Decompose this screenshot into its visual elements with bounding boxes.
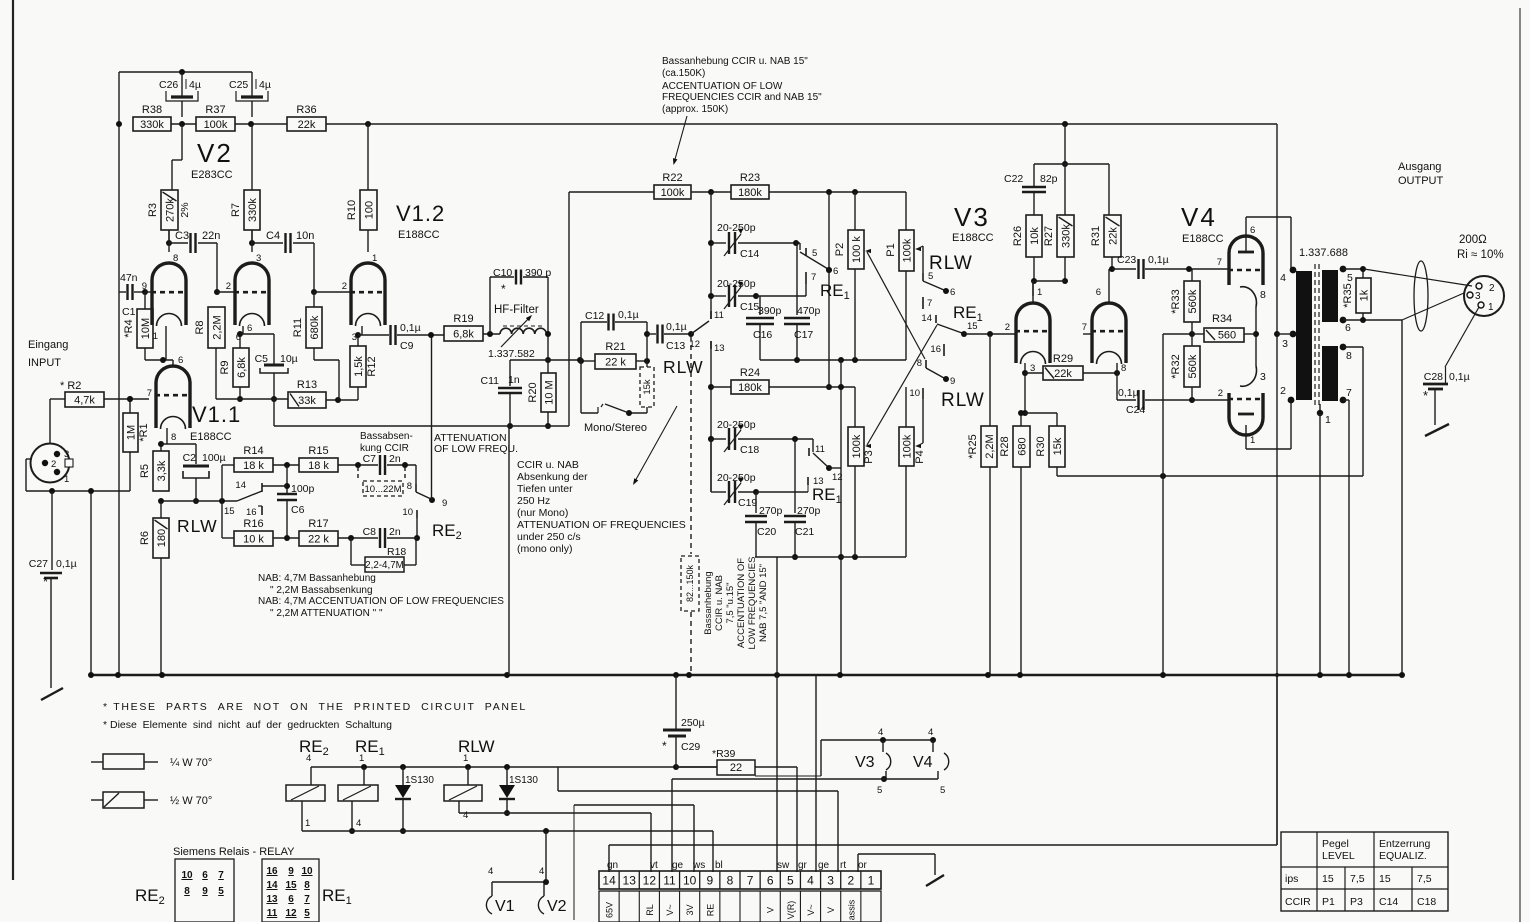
svg-text:CCIR u. NAB: CCIR u. NAB <box>517 459 579 471</box>
svg-text:*: * <box>1423 388 1428 403</box>
svg-text:0,1µ: 0,1µ <box>618 309 639 321</box>
svg-text:*R4: *R4 <box>123 319 135 337</box>
capacitor C29 <box>662 717 705 767</box>
svg-text:6: 6 <box>1250 225 1255 236</box>
svg-text:1.337.582: 1.337.582 <box>488 348 535 360</box>
svg-text:47n: 47n <box>120 272 138 284</box>
svg-text:4,7k: 4,7k <box>74 394 95 406</box>
svg-text:E283CC: E283CC <box>191 169 233 181</box>
capacitor C28 <box>1423 307 1479 425</box>
svg-text:10 k: 10 k <box>243 533 264 545</box>
resistor R22 <box>654 172 714 199</box>
svg-text:4: 4 <box>356 818 361 829</box>
svg-text:R31: R31 <box>1090 226 1102 246</box>
svg-text:V~: V~ <box>806 904 816 915</box>
svg-text:ge: ge <box>818 860 830 871</box>
svg-text:V1: V1 <box>495 898 515 915</box>
svg-text:2: 2 <box>1489 283 1495 294</box>
svg-text:0,1µ: 0,1µ <box>400 322 421 334</box>
svg-text:C18: C18 <box>1417 896 1436 908</box>
tube V1.1 <box>155 366 191 443</box>
svg-text:Bassanhebung: Bassanhebung <box>703 571 714 634</box>
svg-text:C1: C1 <box>122 306 136 318</box>
transformer core <box>1315 264 1319 406</box>
svg-text:*R32: *R32 <box>1170 354 1182 378</box>
svg-text:under 250 c/s: under 250 c/s <box>517 531 581 543</box>
resistor R1 <box>123 396 150 491</box>
resistor R11 <box>292 292 339 400</box>
label RLW mono <box>663 357 704 377</box>
label 1.337.688 <box>1299 247 1348 259</box>
svg-text:R13: R13 <box>297 379 317 391</box>
svg-text:9: 9 <box>202 886 208 897</box>
wire C22 branch <box>1034 124 1109 215</box>
svg-text:C4: C4 <box>266 230 280 242</box>
svg-text:100k: 100k <box>851 434 863 458</box>
wire plate rail V3a <box>1033 281 1065 296</box>
wire cathode x1256 <box>1253 307 1259 366</box>
heater V3 <box>855 727 891 796</box>
svg-text:*: * <box>662 739 667 753</box>
switch RLW 11-12-13 eq <box>689 310 724 354</box>
label NAB block <box>258 573 504 619</box>
label Ri <box>1457 249 1504 261</box>
svg-text:R18: R18 <box>387 546 406 558</box>
svg-text:1: 1 <box>1250 435 1255 446</box>
resistor R30 <box>1035 413 1065 476</box>
svg-text:C21: C21 <box>795 526 814 538</box>
wire secondary 7 ground <box>1343 400 1349 675</box>
switch contact 7 <box>923 297 932 309</box>
svg-text:2: 2 <box>342 281 347 292</box>
svg-text:1n: 1n <box>508 374 520 386</box>
resistor R20 <box>527 360 556 429</box>
wiper P3 to contact14 <box>865 325 937 448</box>
svg-text:gn: gn <box>607 860 618 871</box>
wire eq ladder x711 lower <box>708 341 714 492</box>
svg-text:6: 6 <box>247 323 252 334</box>
resistor R3 <box>147 190 191 230</box>
svg-text:7: 7 <box>218 870 224 881</box>
svg-text:V1.2: V1.2 <box>396 201 445 226</box>
diode 1S130 b <box>499 767 538 816</box>
svg-text:INPUT: INPUT <box>28 357 61 369</box>
svg-text:250 Hz: 250 Hz <box>517 495 550 507</box>
cable shield oval <box>1414 261 1428 331</box>
capacitor C9 <box>358 322 444 352</box>
svg-text:10 M: 10 M <box>543 380 555 404</box>
svg-text:C7: C7 <box>363 453 377 465</box>
svg-text:0,1µ: 0,1µ <box>666 321 687 333</box>
svg-text:* R2: * R2 <box>60 380 81 392</box>
label V1.1 <box>192 402 241 427</box>
legend quarter watt <box>91 754 212 769</box>
svg-text:10: 10 <box>909 388 920 399</box>
svg-text:270k: 270k <box>164 198 176 222</box>
label Eingang <box>28 339 68 351</box>
svg-text:2: 2 <box>1280 385 1286 397</box>
wire V2a cathode <box>165 326 167 360</box>
wire V3a cathode <box>1022 363 1035 416</box>
svg-text:33k: 33k <box>298 395 316 407</box>
wire cathode rail y501 <box>158 498 237 504</box>
svg-text:V1.1: V1.1 <box>192 402 241 427</box>
svg-text:* Diese Elemente sind nicht: * Diese Elemente sind nicht auf der gedr… <box>103 719 392 731</box>
svg-text:P3: P3 <box>863 450 875 463</box>
wire output return <box>1343 293 1464 675</box>
svg-text:Absenkung der: Absenkung der <box>517 471 588 483</box>
svg-text:C29: C29 <box>681 741 700 753</box>
resistor R25 <box>967 334 997 675</box>
transformer secondary upper <box>1322 266 1353 334</box>
svg-text:C28: C28 <box>1424 371 1443 383</box>
svg-text:2,2M: 2,2M <box>211 315 223 339</box>
wire R7 top <box>251 124 252 190</box>
svg-text:C23: C23 <box>1117 254 1136 266</box>
wire V3b cathode <box>1116 363 1118 400</box>
resistor R15 <box>273 445 338 472</box>
svg-text:V: V <box>766 907 776 913</box>
resistor R28 <box>999 410 1030 675</box>
wire NFB divider tap <box>1163 331 1195 675</box>
label RE2 coil <box>299 737 329 758</box>
svg-text:22 k: 22 k <box>605 356 626 368</box>
svg-text:Bassanhebung CCIR u. NAB 15": Bassanhebung CCIR u. NAB 15" <box>662 56 808 67</box>
svg-text:5: 5 <box>928 271 933 282</box>
label V4 <box>1181 202 1217 232</box>
svg-text:22k: 22k <box>1054 368 1072 380</box>
svg-text:1: 1 <box>359 753 364 764</box>
wire C29 to bus <box>675 675 677 729</box>
resistor R29 <box>1025 353 1120 380</box>
svg-text:bl: bl <box>715 860 723 871</box>
svg-text:6: 6 <box>202 870 208 881</box>
svg-text:7: 7 <box>927 298 932 309</box>
label Bassanhebung rotated block <box>703 557 769 650</box>
svg-text:C9: C9 <box>400 340 414 352</box>
svg-text:3: 3 <box>1475 291 1481 302</box>
capacitor C15 trimmer <box>711 278 806 313</box>
resistor R9 <box>219 331 249 402</box>
capacitor C22 <box>1004 164 1058 215</box>
svg-text:8: 8 <box>1121 363 1126 374</box>
label pin7 V3b <box>1082 322 1092 334</box>
switch Mono/Stereo <box>581 361 629 413</box>
svg-text:3V: 3V <box>685 904 695 915</box>
svg-text:10µ: 10µ <box>280 353 298 365</box>
label siemens relay <box>173 846 295 858</box>
svg-text:100 k: 100 k <box>851 236 863 263</box>
svg-text:680: 680 <box>1016 437 1028 455</box>
label RE1 table <box>322 886 352 907</box>
wire input ground rail <box>26 488 130 675</box>
svg-text:*: * <box>501 282 506 296</box>
label RE1 p <box>953 303 983 324</box>
svg-text:4: 4 <box>928 727 933 738</box>
switch RLW 8-9 <box>917 358 956 387</box>
svg-text:R19: R19 <box>453 313 473 325</box>
svg-text:R15: R15 <box>308 445 328 457</box>
wire eq ladder x711 upper <box>708 192 714 319</box>
switch RLW 5-6 <box>923 271 955 298</box>
svg-text:E188CC: E188CC <box>952 232 994 244</box>
capacitor C16 <box>746 296 782 360</box>
svg-text:10k: 10k <box>1029 227 1041 245</box>
wire R37-R36 <box>235 121 287 127</box>
wire heater V3V4 feed <box>755 737 936 776</box>
label E188CC v12 <box>398 229 440 241</box>
svg-text:7,5: 7,5 <box>1417 873 1432 885</box>
svg-text:10M: 10M <box>140 318 152 339</box>
svg-text:(ca.150K): (ca.150K) <box>662 68 705 79</box>
svg-text:3: 3 <box>1260 371 1266 383</box>
svg-text:6: 6 <box>1345 322 1351 334</box>
svg-text:4µ: 4µ <box>189 79 201 91</box>
resistor R39 <box>676 748 797 775</box>
capacitor C12 loop <box>581 309 647 361</box>
wire V4a anode <box>1246 217 1291 270</box>
table RE1 pins <box>262 859 319 922</box>
svg-text:ge: ge <box>672 860 684 871</box>
svg-text:NAB: 4,7M Bassanhebung: NAB: 4,7M Bassanhebung <box>258 573 376 584</box>
svg-text:(mono only): (mono only) <box>517 543 572 555</box>
tube V4b dome <box>1228 393 1264 435</box>
svg-text:R27: R27 <box>1043 226 1055 246</box>
svg-text:R10: R10 <box>346 200 358 220</box>
svg-text:CCIR: CCIR <box>1285 896 1311 908</box>
svg-text:8: 8 <box>917 358 922 369</box>
svg-text:10: 10 <box>301 866 313 877</box>
svg-text:5: 5 <box>218 886 224 897</box>
svg-text:R36: R36 <box>296 104 316 116</box>
label V1.2 <box>396 201 445 226</box>
svg-text:NAB 7,5 "AND 15": NAB 7,5 "AND 15" <box>758 564 769 642</box>
svg-text:15: 15 <box>967 321 978 332</box>
wire rail y360 <box>510 357 583 363</box>
wire R3 top <box>172 124 182 190</box>
switch RE2 14-15-16 <box>224 480 262 518</box>
svg-text:9: 9 <box>950 376 955 387</box>
label Bassanhebung top block <box>662 56 822 115</box>
wire V4b cathode arc <box>1240 366 1266 386</box>
svg-text:Ausgang: Ausgang <box>1398 161 1441 173</box>
svg-text:1,5k: 1,5k <box>353 356 365 377</box>
svg-text:R7: R7 <box>230 203 242 217</box>
svg-text:22n: 22n <box>202 230 220 242</box>
svg-text:100k: 100k <box>204 119 228 131</box>
svg-text:8: 8 <box>407 481 412 492</box>
svg-text:3,3k: 3,3k <box>156 460 168 481</box>
wire R39 to cell5 <box>796 767 798 872</box>
capacitor C5 <box>240 334 298 402</box>
svg-text:R38: R38 <box>142 104 162 116</box>
svg-text:100k: 100k <box>901 434 913 458</box>
svg-text:1S130: 1S130 <box>509 775 538 786</box>
svg-text:3: 3 <box>827 874 834 888</box>
capacitor C25 <box>229 72 271 117</box>
label pin6 V1.1 <box>178 355 183 366</box>
wire rail y805 to cell10 <box>574 805 694 920</box>
svg-text:Entzerrung: Entzerrung <box>1379 838 1431 850</box>
svg-text:C16: C16 <box>753 329 772 341</box>
tube V4a dome <box>1228 236 1264 285</box>
svg-text:82...150k: 82...150k <box>685 564 695 602</box>
ground bus <box>88 672 1405 678</box>
svg-text:or: or <box>858 860 868 871</box>
wire pin9 to plate node <box>431 335 433 500</box>
relay coil RLW <box>444 753 482 821</box>
label attenuation-low-frequ <box>434 432 518 455</box>
svg-text:ACCENTUATION OF LOW: ACCENTUATION OF LOW <box>662 81 783 92</box>
wiper P4 <box>915 399 923 448</box>
label V2 <box>197 138 233 168</box>
svg-text:R14: R14 <box>243 445 263 457</box>
wire R2 to grid <box>104 396 149 402</box>
arrow to mono text <box>631 406 677 486</box>
svg-text:100µ: 100µ <box>202 452 226 464</box>
svg-text:OUTPUT: OUTPUT <box>1398 175 1444 187</box>
svg-text:560k: 560k <box>1187 289 1199 313</box>
svg-text:13: 13 <box>266 894 278 905</box>
capacitor C18 trimmer <box>708 419 813 456</box>
svg-text:7: 7 <box>147 388 152 399</box>
resistor R5 <box>139 428 169 491</box>
svg-text:9: 9 <box>442 498 447 509</box>
svg-text:V~: V~ <box>665 904 675 915</box>
svg-text:180k: 180k <box>738 382 762 394</box>
svg-text:4: 4 <box>488 866 493 877</box>
diode 1S130 a <box>395 767 434 834</box>
svg-text:V4: V4 <box>913 754 933 771</box>
svg-text:8: 8 <box>727 874 734 888</box>
svg-text:10...22M: 10...22M <box>365 484 402 495</box>
wire C3 to V2b grid <box>214 243 234 295</box>
wire R10 top <box>367 124 369 190</box>
svg-text:*: * <box>43 574 48 589</box>
capacitor C27 <box>29 491 77 688</box>
svg-text:*R39: *R39 <box>712 748 736 760</box>
svg-text:2,2-4,7M: 2,2-4,7M <box>365 560 404 571</box>
svg-text:6: 6 <box>950 287 955 298</box>
svg-text:250µ: 250µ <box>681 717 705 729</box>
capacitor C20 <box>745 492 783 557</box>
label E188CC v3 <box>952 232 994 244</box>
label pin2 V4b <box>1218 388 1223 399</box>
svg-text:15: 15 <box>224 506 235 517</box>
capacitor C17 <box>784 243 821 360</box>
wire rail y426 <box>274 399 569 426</box>
switch RE2 8-9 <box>407 465 448 509</box>
wire secondary 8 NFB <box>1343 347 1363 476</box>
switch RE1 14-15 <box>921 313 977 337</box>
svg-text:7,5: 7,5 <box>1350 873 1365 885</box>
svg-text:7: 7 <box>1346 387 1352 399</box>
svg-text:vt: vt <box>650 860 658 871</box>
svg-text:11: 11 <box>714 310 724 321</box>
arrow to R22 <box>671 116 687 166</box>
svg-text:*R25: *R25 <box>967 434 979 458</box>
svg-text:1: 1 <box>64 474 69 485</box>
label pin7 V4a <box>1217 257 1222 268</box>
svg-text:3: 3 <box>1282 338 1288 350</box>
wire V4b cathode out <box>1246 400 1291 449</box>
svg-text:5: 5 <box>1347 272 1353 284</box>
svg-text:16: 16 <box>930 344 941 355</box>
wire bus to cell6 <box>776 557 778 872</box>
svg-text:20-250p: 20-250p <box>717 222 756 234</box>
svg-text:1: 1 <box>463 753 468 764</box>
svg-text:Ri ≈ 10%: Ri ≈ 10% <box>1457 249 1504 261</box>
svg-text:V3: V3 <box>954 202 990 232</box>
svg-text:15k: 15k <box>1052 437 1064 455</box>
svg-text:P4: P4 <box>914 450 926 463</box>
capacitor C1 <box>119 272 148 318</box>
transformer terminal 1 <box>1317 404 1331 675</box>
svg-text:8: 8 <box>184 886 190 897</box>
wire plate node down <box>545 331 551 363</box>
svg-text:8: 8 <box>1346 350 1352 362</box>
svg-text:C15: C15 <box>740 301 759 313</box>
svg-text:200Ω: 200Ω <box>1459 234 1487 246</box>
svg-text:5: 5 <box>812 248 817 259</box>
svg-text:ws: ws <box>692 860 705 871</box>
capacitor C21 <box>784 439 821 560</box>
wire RLW dashed linkage <box>690 336 692 675</box>
svg-text:5: 5 <box>877 785 882 796</box>
svg-text:2: 2 <box>1218 388 1223 399</box>
svg-text:1: 1 <box>1037 287 1042 298</box>
svg-text:NAB: 4,7M ACCENTUATION OF L: NAB: 4,7M ACCENTUATION OF LOW FREQUENCIE… <box>258 596 504 607</box>
svg-text:R30: R30 <box>1035 436 1047 456</box>
capacitor C23 <box>1112 254 1230 279</box>
svg-text:3: 3 <box>256 253 261 264</box>
resistor 82-150k dashed <box>681 556 699 611</box>
label Mono/Stereo <box>584 422 647 434</box>
svg-text:2: 2 <box>226 281 231 292</box>
wire V2c plate node <box>355 326 362 338</box>
svg-text:HF-Filter: HF-Filter <box>494 304 539 316</box>
capacitor C14 trimmer <box>711 222 800 260</box>
resistor R10 <box>346 190 377 230</box>
label HF-Filter <box>494 304 539 316</box>
switch contact 7 eq <box>806 272 816 296</box>
legend half watt <box>91 792 212 808</box>
svg-text:180: 180 <box>156 529 168 547</box>
svg-text:100k: 100k <box>901 238 913 262</box>
svg-text:0,1µ: 0,1µ <box>1148 254 1169 266</box>
label pin8 V3b <box>1121 363 1126 374</box>
svg-text:R22: R22 <box>662 172 682 184</box>
svg-text:rt: rt <box>840 860 846 871</box>
svg-text:CCIR u. NAB: CCIR u. NAB <box>714 575 725 631</box>
svg-text:14: 14 <box>266 880 278 891</box>
resistor R6 <box>139 501 169 675</box>
svg-text:1: 1 <box>1488 302 1494 313</box>
label 1.337.582 <box>488 348 535 360</box>
svg-text:Bassabsen-: Bassabsen- <box>360 431 413 442</box>
svg-text:R9: R9 <box>219 360 231 374</box>
svg-text:Tiefen unter: Tiefen unter <box>517 483 573 495</box>
svg-text:V4: V4 <box>1181 202 1217 232</box>
transformer secondary lower <box>1322 344 1352 404</box>
label E188CC v4 <box>1182 233 1224 245</box>
ground output <box>1425 424 1449 436</box>
svg-text:R17: R17 <box>308 518 328 530</box>
svg-text:11: 11 <box>663 874 676 888</box>
svg-text:13: 13 <box>714 343 725 354</box>
svg-text:16: 16 <box>246 507 257 518</box>
switch contact 10 <box>909 388 923 399</box>
